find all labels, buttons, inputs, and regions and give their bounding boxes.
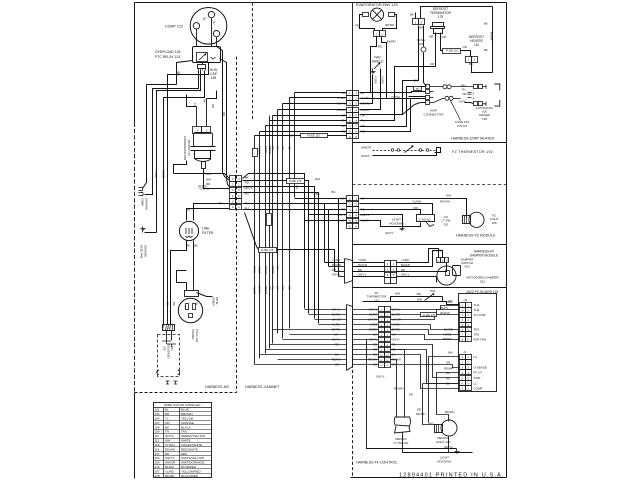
svg-text:OR: OR — [446, 360, 450, 364]
svg-text:GN/YL: GN/YL — [392, 338, 401, 342]
wire compressor S to relay — [196, 29, 198, 47]
svg-text:GN/YL: GN/YL — [264, 146, 268, 154]
svg-text:BK: BK — [414, 79, 418, 83]
svg-text:BK: BK — [290, 134, 294, 138]
wire RD/WH to switch — [391, 360, 397, 417]
inline fuse on WH/GR to J2 — [421, 313, 437, 317]
svg-text:WH: WH — [165, 439, 170, 443]
wire GN/YL down to light housing ground — [367, 340, 457, 449]
svg-text:138: 138 — [482, 117, 487, 121]
svg-text:RD: RD — [341, 207, 345, 211]
wire bulb bottom — [448, 437, 450, 453]
svg-text:OR: OR — [430, 62, 434, 66]
condenser fan motor stem — [202, 162, 206, 169]
FF funnel — [347, 305, 353, 371]
svg-text:157: 157 — [155, 452, 160, 456]
svg-text:207: 207 — [155, 469, 160, 473]
wire into connector row3 — [227, 179, 230, 187]
wire stair y84 — [147, 84, 177, 86]
svg-text:C: C — [232, 189, 234, 192]
svg-text:GN/YL: GN/YL — [358, 273, 367, 277]
defrost terminator symbol — [433, 23, 444, 27]
power plug cord entry — [185, 291, 199, 297]
svg-text:YL/WH: YL/WH — [253, 286, 257, 294]
refrig light switch — [394, 417, 410, 426]
wire row y220.2 right — [305, 220, 347, 222]
wire terminator right lead — [441, 33, 443, 51]
svg-text:RD: RD — [414, 206, 418, 210]
wire line filter in 2 — [187, 209, 230, 221]
inline fuse link boxed — [443, 49, 461, 54]
svg-text:HARNESS-MC: HARNESS-MC — [205, 385, 230, 389]
svg-text:RD: RD — [356, 24, 360, 28]
svg-text:FF LIT: FF LIT — [474, 371, 483, 375]
svg-text:109: 109 — [155, 430, 160, 434]
svg-text:BU: BU — [332, 190, 336, 194]
svg-text:BR/RD: BR/RD — [443, 337, 452, 341]
wire heater loop right — [492, 7, 494, 73]
svg-text:YL/RD: YL/RD — [154, 170, 158, 178]
wire bullet links — [434, 86, 441, 88]
J2 connector — [460, 303, 466, 308]
svg-text:W/YEL: W/YEL — [215, 297, 218, 305]
svg-text:205: 205 — [155, 461, 160, 465]
wire: right outer border — [506, 3, 508, 478]
wire row y209 right — [243, 209, 347, 211]
svg-text:BLACK/RED: BLACK/RED — [181, 474, 199, 478]
solenoid coils — [157, 370, 159, 374]
wire evap fan loop left — [360, 15, 375, 31]
svg-text:RED: RED — [181, 452, 188, 456]
svg-text:COMP: COMP — [474, 387, 483, 391]
svg-text:BK/RD: BK/RD — [387, 40, 396, 44]
inline fuse vertical in bundle — [267, 214, 272, 226]
svg-text:BK: BK — [165, 302, 169, 306]
wire stair y104 — [168, 63, 209, 105]
FZ light switch — [417, 215, 435, 222]
wire fuse to heater connector — [461, 51, 471, 57]
svg-text:BK/RD: BK/RD — [165, 474, 175, 478]
svg-text:WH: WH — [430, 289, 435, 293]
svg-text:OR: OR — [268, 286, 272, 290]
svg-text:PLUG 129: PLUG 129 — [195, 329, 199, 343]
svg-text:WH/GR: WH/GR — [361, 146, 371, 150]
svg-text:FUSE 175: FUSE 175 — [289, 179, 302, 183]
svg-text:PTC RELAY 124: PTC RELAY 124 — [155, 55, 180, 59]
FZ module connector — [347, 196, 353, 202]
bundle verticals — [254, 136, 256, 365]
fuse 163 inline — [421, 47, 426, 52]
svg-text:C NO NC: C NO NC — [419, 217, 431, 221]
inline fuse vertical 2 — [253, 149, 258, 157]
damper 4-pin block — [385, 261, 391, 267]
svg-text:110: 110 — [474, 43, 479, 47]
run capacitor box — [198, 65, 206, 69]
svg-text:YL/RD: YL/RD — [358, 258, 366, 262]
stub pins 2 4 — [468, 93, 472, 95]
svg-text:GN/YL: GN/YL — [253, 266, 257, 274]
svg-text:BK/RD: BK/RD — [264, 286, 268, 294]
svg-text:YL/RD: YL/RD — [374, 76, 378, 84]
svg-text:WIRE COLOR CODE KEY: WIRE COLOR CODE KEY — [164, 403, 201, 407]
wire evap fan to rows — [360, 37, 377, 93]
FZ light bulb — [469, 212, 484, 227]
svg-text:WH: WH — [417, 292, 422, 296]
fan shield ground arrow — [374, 64, 379, 70]
svg-text:189: 189 — [211, 76, 217, 80]
wire motor pin1 — [196, 107, 198, 127]
wire heater top feed — [360, 26, 419, 115]
svg-text:SOLENOID: SOLENOID — [166, 344, 170, 358]
wire row y214.7 right — [309, 214, 347, 216]
wire stair y97.5 — [164, 71, 205, 325]
svg-text:RD: RD — [446, 376, 450, 380]
compressor pin C — [208, 11, 214, 17]
divider evap-heater section bottom — [353, 142, 507, 144]
svg-text:YL/RD: YL/RD — [401, 258, 409, 262]
svg-text:C: C — [238, 206, 240, 209]
svg-text:TH COM: TH COM — [474, 313, 486, 317]
svg-text:WH: WH — [315, 177, 320, 181]
svg-text:RD: RD — [409, 393, 413, 397]
bullet connectors — [443, 85, 447, 89]
condenser fan motor connector — [193, 127, 202, 134]
svg-text:RED/WHITE: RED/WHITE — [181, 447, 198, 451]
svg-text:RD: RD — [378, 45, 382, 49]
svg-text:NE: NE — [197, 301, 199, 305]
svg-text:TN: TN — [462, 88, 466, 92]
divider top dashed at x=252 — [252, 3, 254, 121]
svg-text:WH: WH — [288, 286, 292, 290]
svg-text:TR1: TR1 — [474, 328, 480, 332]
svg-text:YL/RD: YL/RD — [161, 170, 165, 178]
svg-text:119: 119 — [155, 447, 160, 451]
svg-text:195: 195 — [491, 221, 496, 225]
svg-text:EVP FAN: EVP FAN — [474, 337, 487, 341]
svg-text:LD: LD — [183, 305, 185, 308]
svg-text:RD: RD — [222, 112, 226, 116]
svg-text:HOUSING: HOUSING — [437, 460, 452, 464]
wire stair y91 — [157, 71, 201, 233]
svg-text:WHITE: WHITE — [181, 439, 191, 443]
svg-text:WHITE/ORANGE: WHITE/ORANGE — [181, 461, 205, 465]
svg-text:YELLOW: YELLOW — [181, 416, 194, 420]
svg-text:WH/YL: WH/YL — [165, 456, 175, 460]
refrig light bulb — [441, 420, 457, 436]
svg-text:151: 151 — [170, 346, 174, 351]
wires bundle into funnel — [305, 309, 347, 311]
svg-text:MOTOR 127: MOTOR 127 — [187, 140, 191, 156]
svg-text:OVERLOAD 126: OVERLOAD 126 — [155, 50, 181, 54]
svg-text:YL/WH: YL/WH — [412, 200, 421, 204]
svg-text:BU: BU — [316, 192, 320, 196]
wire row y203.8 right — [243, 203, 347, 205]
wire WH to J1 L3 — [429, 357, 460, 423]
svg-text:BK/RD: BK/RD — [361, 108, 370, 112]
ff thermistor wires — [363, 301, 443, 303]
svg-text:BK/RD: BK/RD — [337, 108, 346, 112]
wire motor top links — [187, 95, 197, 107]
damper wires to motor — [397, 249, 439, 263]
ice maker pins lower — [465, 103, 474, 104]
svg-text:BU/RD: BU/RD — [444, 328, 453, 332]
svg-text:WH: WH — [206, 178, 211, 182]
J1 connector — [460, 355, 466, 360]
svg-text:COMP: COMP — [141, 198, 145, 206]
svg-text:175: 175 — [438, 15, 444, 19]
wire into connector row2 — [223, 173, 230, 181]
svg-text:FUSE 115: FUSE 115 — [307, 134, 320, 138]
svg-text:BK/RD: BK/RD — [271, 266, 275, 274]
svg-text:WH: WH — [395, 292, 400, 296]
svg-text:BK: BK — [194, 244, 198, 248]
svg-text:CONDENSER FAN: CONDENSER FAN — [183, 136, 187, 160]
power plug P1 — [178, 298, 202, 322]
main harness connector top — [347, 91, 353, 96]
wire yl/rd drop2 — [360, 69, 381, 110]
diagonal with fuse 175 — [245, 213, 259, 250]
svg-text:RD/WH: RD/WH — [394, 387, 403, 391]
svg-text:OR: OR — [442, 35, 446, 39]
wire terminator left lead — [360, 33, 436, 121]
svg-text:WH/YL: WH/YL — [440, 306, 449, 310]
svg-text:BK: BK — [469, 62, 473, 66]
svg-text:WH/OR: WH/OR — [264, 266, 268, 275]
svg-text:GN/YL: GN/YL — [376, 375, 385, 379]
svg-text:RD: RD — [446, 371, 450, 375]
svg-text:OR: OR — [271, 146, 275, 150]
wire rows to amp pins — [360, 87, 426, 127]
wire FZ row4 GN/YL to ground — [360, 215, 403, 227]
wire evap fan loop right — [383, 15, 397, 31]
svg-text:BK: BK — [484, 48, 488, 52]
ice maker pins upper — [474, 85, 478, 89]
svg-text:FZ THERMISTOR 192: FZ THERMISTOR 192 — [452, 150, 493, 154]
svg-text:GREEN/YELLOW: GREEN/YELLOW — [181, 434, 205, 438]
svg-text:ICE: ICE — [163, 346, 167, 351]
power plug ground lead — [197, 293, 213, 297]
wire FZ row5 — [360, 221, 421, 227]
svg-text:BK: BK — [186, 244, 190, 248]
svg-text:TN: TN — [271, 286, 275, 290]
wire: bottom border of left harness box — [135, 392, 237, 394]
svg-text:261: 261 — [480, 279, 485, 283]
wire: left lower border continuation — [134, 393, 136, 479]
wire relay bottom to cap — [202, 63, 204, 65]
wire row y192 right — [243, 193, 319, 324]
condenser fan motor body — [194, 133, 213, 147]
svg-text:BK: BK — [484, 22, 488, 26]
svg-text:RD/WH: RD/WH — [445, 410, 454, 414]
svg-text:·: · — [393, 280, 394, 283]
svg-text:WHITE/YELLOW: WHITE/YELLOW — [181, 456, 204, 460]
ice solenoid dashed box — [158, 335, 180, 377]
svg-text:TN: TN — [165, 430, 169, 434]
AMP connector pins — [426, 85, 430, 89]
fz thermistor symbol — [405, 147, 413, 153]
svg-text:HARNESS-FF CONTROL: HARNESS-FF CONTROL — [356, 461, 398, 465]
comp ground lug — [139, 187, 142, 189]
svg-text:BK: BK — [410, 13, 414, 17]
svg-text:YL/RD: YL/RD — [332, 258, 340, 262]
wire comp ground drop — [143, 85, 147, 189]
svg-text:104: 104 — [155, 416, 160, 420]
svg-text:WH: WH — [341, 196, 346, 200]
wire: left outer border (harness-MC box) — [134, 3, 136, 123]
svg-text:YL/WH: YL/WH — [258, 266, 262, 274]
svg-text:RD: RD — [211, 104, 215, 108]
svg-text:GN/YL: GN/YL — [444, 445, 453, 449]
divider ff-damper section bottom — [353, 287, 507, 289]
wire: bottom border of FF control section — [351, 477, 507, 479]
light housing ground — [456, 449, 458, 452]
overload/PTC relay box — [193, 47, 221, 63]
svg-text:BK: BK — [203, 99, 207, 103]
svg-text:GROUND: GROUND — [144, 198, 148, 210]
wire relay left exit BK — [177, 61, 193, 85]
wire RD to switch 2 — [404, 395, 406, 417]
solenoid terminals — [162, 341, 171, 344]
svg-text:FUSE 175: FUSE 175 — [261, 248, 274, 252]
svg-text:HARNESS-EVAP HEATER: HARNESS-EVAP HEATER — [451, 137, 495, 141]
svg-text:D-SENSE: D-SENSE — [474, 365, 487, 369]
divider fz-module section bottom — [353, 244, 507, 246]
svg-text:DAMPER MODULE: DAMPER MODULE — [470, 254, 498, 258]
svg-text:GN/YL: GN/YL — [385, 231, 394, 235]
svg-text:FUSE 175: FUSE 175 — [423, 313, 436, 317]
svg-text:263: 263 — [464, 265, 469, 269]
svg-text:201: 201 — [443, 222, 448, 226]
wire filter feed left — [167, 105, 169, 325]
base pan ground wire — [145, 232, 157, 234]
svg-text:C: C — [238, 195, 240, 198]
svg-text:YL/WH: YL/WH — [336, 218, 345, 222]
svg-text:C: C — [232, 195, 234, 198]
svg-text:POWER: POWER — [191, 329, 195, 340]
compressor C1 circle — [190, 8, 227, 45]
wire row fuse y181 right — [243, 180, 287, 182]
divider harness-MC / cabinet (dashed) — [236, 57, 238, 393]
wire to top rail — [415, 13, 417, 19]
svg-text:L3: L3 — [474, 355, 478, 359]
svg-text:YL/WH: YL/WH — [391, 95, 400, 99]
svg-text:BR: BR — [430, 35, 434, 39]
svg-text:YL/RD: YL/RD — [381, 76, 385, 84]
svg-text:RD/WH: RD/WH — [440, 200, 450, 204]
svg-text:WH/BK: WH/BK — [490, 32, 494, 41]
wire row WH y173.5 right — [243, 174, 305, 309]
svg-text:WH: WH — [417, 297, 422, 301]
svg-text:YL/RD: YL/RD — [434, 249, 442, 253]
svg-text:RD/WH: RD/WH — [444, 366, 453, 370]
svg-text:BLACK: BLACK — [181, 425, 191, 429]
damper feed 4 — [295, 198, 347, 200]
wire RD/WH FF LIT to bulb top — [437, 373, 460, 422]
svg-text:WH: WH — [446, 194, 451, 198]
svg-text:GROUND: GROUND — [143, 245, 147, 257]
heater connector 1 2 — [466, 57, 472, 63]
svg-text:TN: TN — [416, 87, 420, 91]
svg-text:COMP 123: COMP 123 — [165, 25, 183, 29]
label FUSE 163 2 PLCS callout — [451, 101, 461, 121]
svg-text:YL/RD: YL/RD — [443, 333, 451, 337]
svg-text:WH/YL: WH/YL — [361, 154, 371, 158]
svg-text:RD/WH: RD/WH — [416, 412, 425, 416]
damper wires — [325, 262, 345, 264]
svg-text:FILTER: FILTER — [202, 231, 214, 235]
svg-text:YELLOW/RED: YELLOW/RED — [181, 469, 202, 473]
svg-text:-J2: -J2 — [463, 298, 467, 302]
svg-text:BASE PAN: BASE PAN — [140, 245, 144, 258]
wire stair y88 — [145, 71, 199, 195]
svg-text:101: 101 — [155, 408, 160, 412]
wire FZ row2 YL/WH to switch — [360, 204, 433, 215]
svg-text:WH: WH — [206, 172, 211, 176]
svg-text:OR: OR — [276, 286, 280, 290]
wires line filter out — [171, 241, 187, 325]
svg-text:C: C — [232, 178, 234, 181]
wire heater loop bottom — [472, 62, 493, 73]
wires FF connector to J1 — [391, 345, 460, 378]
svg-text:RD/WH: RD/WH — [165, 447, 175, 451]
svg-text:GREEN: GREEN — [212, 297, 215, 306]
strain relief hatch block — [163, 325, 175, 331]
svg-text:CONNECTOR: CONNECTOR — [424, 113, 445, 117]
svg-text:WH: WH — [428, 422, 433, 426]
wire ff therm to J2 row1 — [442, 297, 444, 302]
svg-text:TN: TN — [276, 146, 280, 150]
damper funnel — [345, 259, 353, 284]
wire: outer top border — [135, 2, 507, 4]
svg-text:OR: OR — [281, 146, 285, 150]
svg-text:EVAPORATOR FAN 133: EVAPORATOR FAN 133 — [356, 3, 398, 7]
stair lug 2 — [139, 192, 143, 194]
ice maker bracket lower — [494, 100, 499, 106]
svg-text:108: 108 — [155, 425, 160, 429]
svg-text:L1: L1 — [474, 381, 478, 385]
svg-text:WH/GR: WH/GR — [440, 311, 450, 315]
FF harness connector — [379, 307, 385, 312]
svg-text:BK/RD: BK/RD — [268, 146, 272, 154]
divider harness-cabinet / right column — [352, 3, 354, 365]
line filter L1 — [179, 221, 198, 240]
svg-text:WH: WH — [448, 351, 453, 355]
svg-text:C: C — [238, 178, 240, 181]
evaporator fan M1 symbol — [370, 8, 383, 21]
svg-text:YL/WH: YL/WH — [336, 96, 345, 100]
wires FF connector to J2 — [391, 306, 460, 310]
svg-text:GN/YL: GN/YL — [258, 286, 262, 294]
svg-text:STAT: STAT — [474, 376, 481, 380]
svg-text:WH/OR: WH/OR — [165, 461, 176, 465]
svg-text:BK: BK — [295, 185, 299, 189]
wire RD to bulb — [423, 384, 435, 425]
svg-text:163: 163 — [418, 42, 423, 46]
svg-text:TN: TN — [276, 266, 280, 270]
svg-text:204: 204 — [155, 456, 160, 460]
wire compressor R to relay — [216, 37, 218, 47]
svg-text:GN/YL: GN/YL — [332, 273, 341, 277]
svg-text:J1: J1 — [463, 350, 467, 354]
svg-text:OR: OR — [462, 92, 466, 96]
wire condenser fan feeds — [217, 47, 223, 173]
fuse row8 wire and inline fuse — [327, 135, 347, 137]
svg-text:OR: OR — [361, 124, 365, 128]
wire row y186.6 right — [243, 187, 315, 319]
svg-text:·: · — [387, 280, 388, 283]
wire motor pin2 — [206, 99, 208, 127]
svg-text:BK: BK — [165, 425, 169, 429]
